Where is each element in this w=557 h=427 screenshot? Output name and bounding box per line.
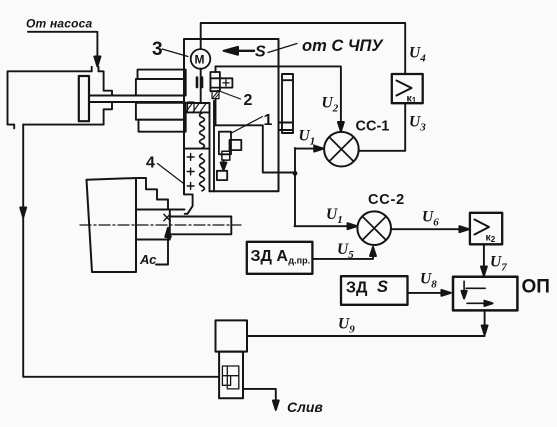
svg-text:2: 2 [244, 92, 253, 109]
svg-text:Слив: Слив [287, 399, 323, 415]
svg-text:СС-2: СС-2 [368, 192, 405, 208]
svg-text:от С ЧПУ: от С ЧПУ [302, 37, 384, 55]
svg-text:S: S [377, 278, 388, 296]
svg-text:3: 3 [152, 39, 163, 60]
svg-text:ОП: ОП [522, 277, 550, 298]
svg-text:Ас: Ас [139, 252, 157, 267]
svg-text:От насоса: От насоса [26, 17, 93, 31]
svg-text:M: M [195, 53, 205, 67]
svg-text:СС-1: СС-1 [356, 119, 390, 135]
svg-text:4: 4 [146, 155, 155, 172]
svg-text:ЗД: ЗД [346, 280, 368, 297]
svg-text:S: S [255, 44, 266, 61]
svg-text:1: 1 [264, 112, 273, 129]
